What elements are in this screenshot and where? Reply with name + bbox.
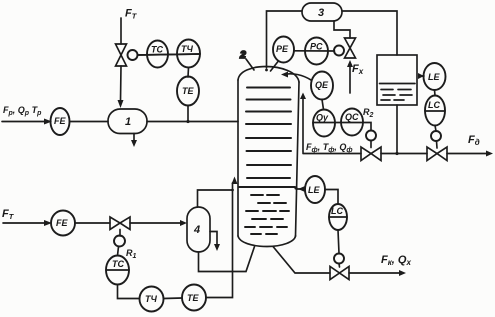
svg-text:PE: PE [276,44,289,54]
svg-text:TC: TC [151,45,163,55]
svg-text:1: 1 [125,116,131,128]
svg-text:LC: LC [331,206,343,216]
svg-text:FE: FE [56,218,68,228]
svg-text:LE: LE [428,72,440,82]
svg-text:TЧ: TЧ [145,294,157,304]
svg-text:3: 3 [318,7,324,19]
svg-text:QE: QE [315,80,329,90]
svg-text:TE: TE [187,293,199,303]
svg-text:TE: TE [182,86,194,96]
svg-text:LE: LE [308,185,320,195]
svg-text:TЧ: TЧ [181,44,193,54]
svg-text:QC: QC [345,112,359,122]
svg-text:4: 4 [193,224,200,236]
svg-text:FE: FE [54,116,66,126]
svg-text:LC: LC [428,100,440,110]
svg-text:2: 2 [239,49,246,61]
svg-text:TC: TC [112,259,124,269]
svg-text:Qу: Qу [316,113,329,123]
svg-text:PC: PC [310,42,323,52]
